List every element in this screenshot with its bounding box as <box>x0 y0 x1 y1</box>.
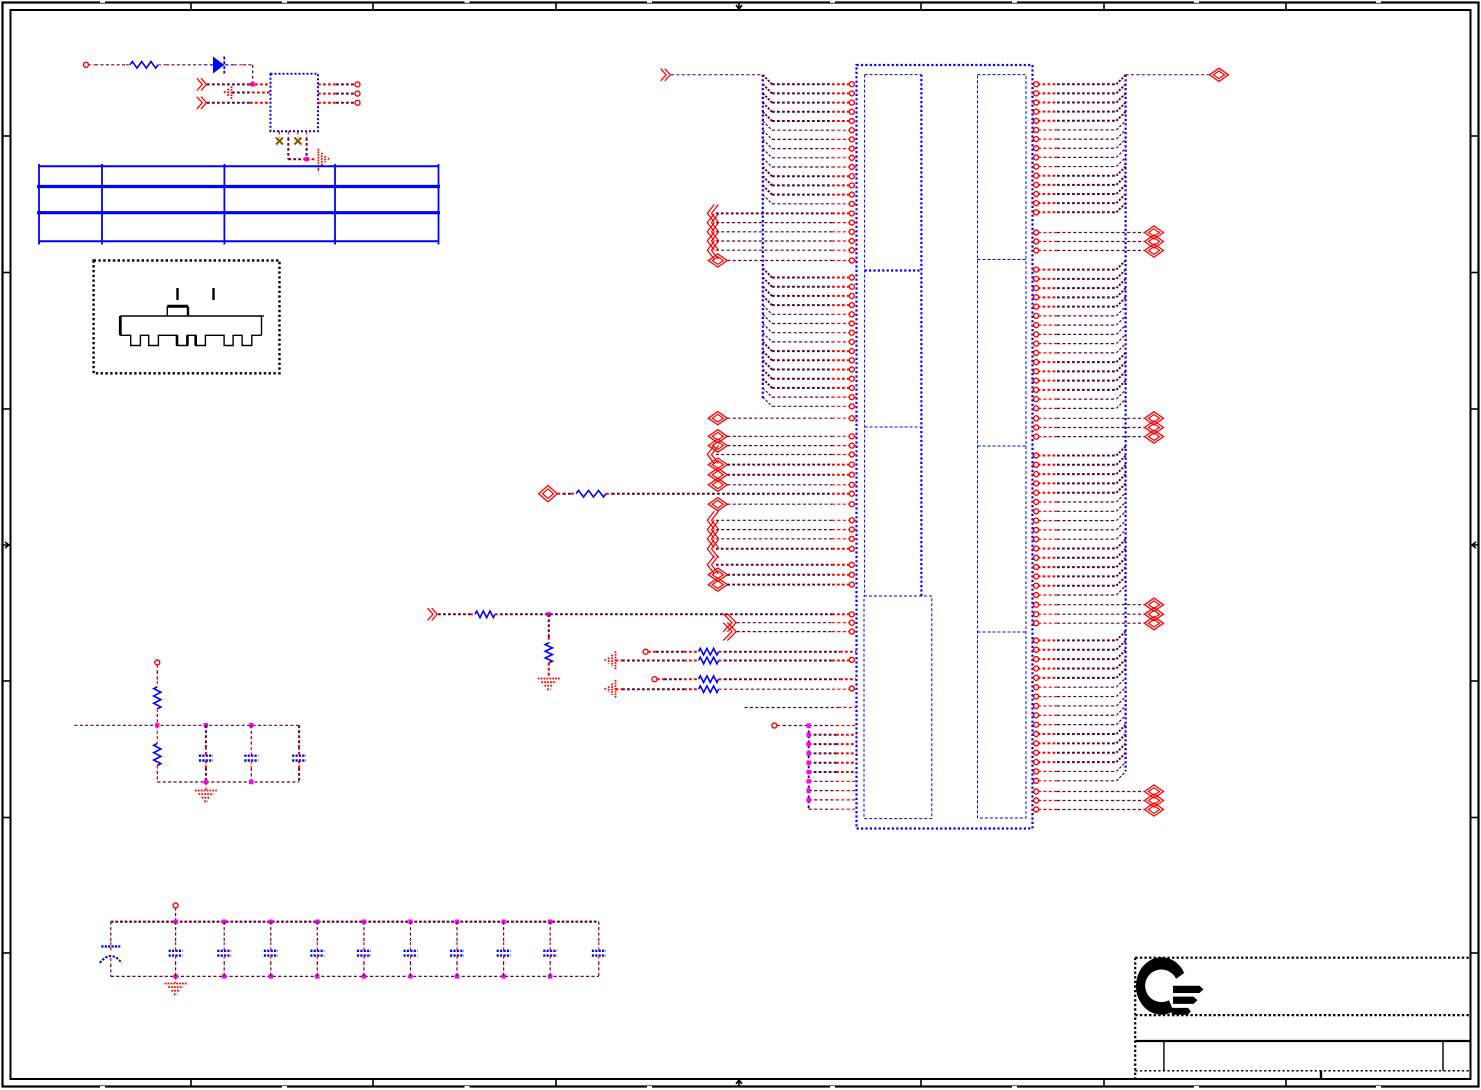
capacitor C1 <box>199 755 213 757</box>
resistor R6 <box>699 657 719 664</box>
wires U1 right pin group 3 <box>1033 446 1126 597</box>
wire <box>175 922 177 942</box>
wire <box>110 958 112 964</box>
wire U2 out 1 <box>318 83 336 85</box>
pin <box>355 91 360 96</box>
junction <box>547 612 551 616</box>
wires U1 left pin group 2 <box>763 268 857 409</box>
resistor R4 <box>545 643 552 663</box>
wire U2 out 2 <box>318 93 336 95</box>
wire <box>298 761 300 769</box>
pin TP6 <box>173 903 178 908</box>
junction <box>269 974 273 978</box>
IC U2 <box>271 74 319 132</box>
ground GND3 <box>538 678 560 680</box>
wire <box>727 503 832 505</box>
capacitor C2 <box>244 755 258 757</box>
wire <box>175 908 177 913</box>
wire U2 bottom stub 3 <box>297 131 299 137</box>
ports group C (chevrons) <box>707 511 718 558</box>
wires ports group D to U1 <box>716 562 857 587</box>
wire <box>207 83 250 85</box>
port P1 (input chevron) <box>201 78 207 90</box>
wire U2 bottom stub 2 <box>287 131 289 138</box>
wires to port diamonds D1 <box>1033 230 1145 253</box>
wire <box>175 976 177 983</box>
wires ports group C to U1 <box>716 518 857 552</box>
junction <box>155 723 159 727</box>
wire <box>648 651 656 653</box>
port P6 (input chevron) <box>432 608 438 620</box>
resistor R1 <box>130 62 158 69</box>
wire <box>250 725 252 747</box>
wire <box>410 922 412 942</box>
wire bottom rail <box>157 781 299 783</box>
wires to port diamonds D3 <box>1033 602 1145 626</box>
wire <box>719 660 724 662</box>
junction <box>173 974 177 978</box>
wire <box>363 922 365 942</box>
wire <box>158 64 166 66</box>
U1 left inner section lower <box>864 596 932 819</box>
junction <box>222 920 226 924</box>
wire <box>616 660 623 662</box>
junction <box>362 920 366 924</box>
wire <box>719 651 724 653</box>
wire <box>657 678 664 680</box>
pin TP4 <box>772 723 777 728</box>
wire U2 bottom stub 1 <box>278 131 280 137</box>
capacitor C4 (electrolytic) <box>101 945 120 947</box>
pin TP5 <box>155 660 160 665</box>
wires to port diamonds D4 <box>1033 789 1145 812</box>
wire rail <box>74 724 299 726</box>
wire <box>205 782 207 790</box>
capacitor C3 <box>292 755 306 757</box>
junction <box>173 920 177 924</box>
wire <box>110 922 112 942</box>
bus right vertical <box>1124 75 1126 771</box>
wire <box>270 956 272 962</box>
junction <box>204 780 208 784</box>
junction <box>249 780 253 784</box>
wire <box>719 678 724 680</box>
port P2 (input chevron) <box>201 97 207 109</box>
wires U1 right pin group 4 <box>1033 631 1126 783</box>
wire <box>270 922 272 942</box>
pin TP3 <box>652 677 657 682</box>
no-connect X2 <box>294 138 301 145</box>
U1 right inner section <box>978 75 1027 818</box>
package drawing <box>176 288 178 300</box>
capacitor C6 <box>217 950 231 952</box>
resistor R2 <box>576 490 606 497</box>
wire <box>250 761 252 769</box>
wire <box>156 665 158 671</box>
wire <box>175 956 177 962</box>
junction <box>204 723 208 727</box>
wire <box>316 922 318 942</box>
pin TP1 <box>84 62 89 67</box>
wire <box>456 922 458 942</box>
wire <box>616 688 623 690</box>
junction <box>548 974 552 978</box>
capacitor C14 <box>592 950 606 952</box>
mechanical detail box <box>94 261 280 374</box>
wire <box>598 922 600 942</box>
port P3 (input chevron) <box>665 69 671 81</box>
wire <box>503 922 505 942</box>
wire <box>156 766 158 772</box>
wire bottom rail <box>111 975 599 977</box>
wire <box>410 956 412 962</box>
port diamond P5 <box>708 498 727 511</box>
resistor R10 <box>154 744 161 766</box>
capacitor C7 <box>264 950 278 952</box>
wires to port diamonds D2 <box>1033 416 1145 439</box>
wire <box>223 922 225 942</box>
wire <box>316 956 318 962</box>
ground GND2 (right-facing) <box>317 149 319 170</box>
capacitor C11 <box>450 950 464 952</box>
port diamond P4 <box>539 486 558 502</box>
IC U1 outline <box>857 65 1033 829</box>
no-connect X1 <box>276 138 283 145</box>
resistor R7 <box>699 676 719 683</box>
pin <box>355 82 360 87</box>
wires U1 left bottom group <box>807 723 857 809</box>
wire <box>223 956 225 962</box>
capacitor C8 <box>310 950 324 952</box>
port diamond P7 (top right) <box>1210 68 1229 81</box>
revision table <box>39 165 439 167</box>
junction <box>455 920 459 924</box>
pin TP2 <box>643 649 648 654</box>
wire <box>606 493 612 495</box>
wire <box>598 956 600 962</box>
junction <box>501 920 505 924</box>
junction <box>222 974 226 978</box>
port diamonds D4 (stack) <box>1145 785 1164 816</box>
junction <box>304 157 308 161</box>
wire <box>225 64 234 66</box>
wires ports group B to U1 <box>716 434 857 488</box>
Commodore logo <box>1136 957 1184 1014</box>
U1 left inner section upper <box>865 74 922 76</box>
ground GND1 (left-facing) <box>231 86 233 99</box>
resistor R9 <box>154 687 161 709</box>
wire <box>363 956 365 962</box>
resistor R5 <box>699 648 719 655</box>
wire <box>549 922 551 942</box>
wire <box>557 493 563 495</box>
ports group B (diamonds) <box>707 430 727 492</box>
junction <box>315 974 319 978</box>
wires U1 left pin group 1 <box>763 75 857 206</box>
wire <box>548 614 550 637</box>
port diamond B1 <box>708 412 727 425</box>
ports group E (output chevrons) <box>727 614 736 632</box>
capacitor C10 <box>404 950 418 952</box>
junction <box>408 974 412 978</box>
junction <box>501 974 505 978</box>
wire <box>207 102 250 104</box>
wires U1 right pin group 2 <box>1033 260 1126 410</box>
wire <box>503 956 505 962</box>
capacitor C13 <box>543 950 557 952</box>
wire <box>205 761 207 769</box>
pin <box>355 100 360 105</box>
wire U2 out 3 <box>318 102 336 104</box>
wire <box>719 688 724 690</box>
ground GND4 (left-facing) <box>615 651 617 670</box>
port diamonds D1 (stack) <box>1145 226 1164 257</box>
wires U1 right pin group 1 <box>1033 75 1126 215</box>
ground GND7 <box>165 983 187 985</box>
wire U2 bottom stub 4 <box>306 131 308 138</box>
junction <box>455 974 459 978</box>
wire <box>156 709 158 714</box>
capacitor C12 <box>497 950 511 952</box>
ground GND6 <box>195 790 217 792</box>
resistor R8 <box>699 686 719 693</box>
wire <box>549 956 551 962</box>
capacitor C9 <box>357 950 371 952</box>
port diamonds D2 (stack) <box>1145 412 1164 444</box>
wire top rail <box>111 921 599 923</box>
wire <box>156 725 158 743</box>
wire <box>205 725 207 747</box>
wires ports group A to U1 <box>716 211 857 263</box>
wire <box>495 613 500 615</box>
ports group A (chevrons and diamond) <box>707 204 727 267</box>
wires ports group E to U1 <box>737 622 832 624</box>
junction <box>251 82 255 86</box>
ground GND5 (left-facing) <box>615 680 617 699</box>
capacitor C5 <box>169 950 183 952</box>
diode CR1 <box>214 58 224 73</box>
title block <box>1135 957 1470 959</box>
junction <box>548 920 552 924</box>
wire <box>548 663 550 678</box>
junction <box>269 920 273 924</box>
ports group D <box>707 556 727 591</box>
junction <box>362 974 366 978</box>
wire <box>456 956 458 962</box>
wire <box>298 725 300 747</box>
wire <box>727 417 832 419</box>
junction <box>315 920 319 924</box>
wire <box>438 613 470 615</box>
wire <box>88 64 95 66</box>
bus-like vertical wire <box>808 726 810 810</box>
wire (blue net to bus) <box>671 74 763 76</box>
wire (blue net to port) <box>1126 74 1210 76</box>
wire <box>232 92 252 94</box>
wire net stub <box>745 707 839 709</box>
bus left vertical <box>762 75 764 400</box>
junction <box>408 920 412 924</box>
resistor R3 <box>475 611 495 618</box>
wire <box>307 158 316 160</box>
junction <box>249 723 253 727</box>
wire <box>777 725 783 727</box>
port diamonds D3 (stack) <box>1145 598 1164 630</box>
